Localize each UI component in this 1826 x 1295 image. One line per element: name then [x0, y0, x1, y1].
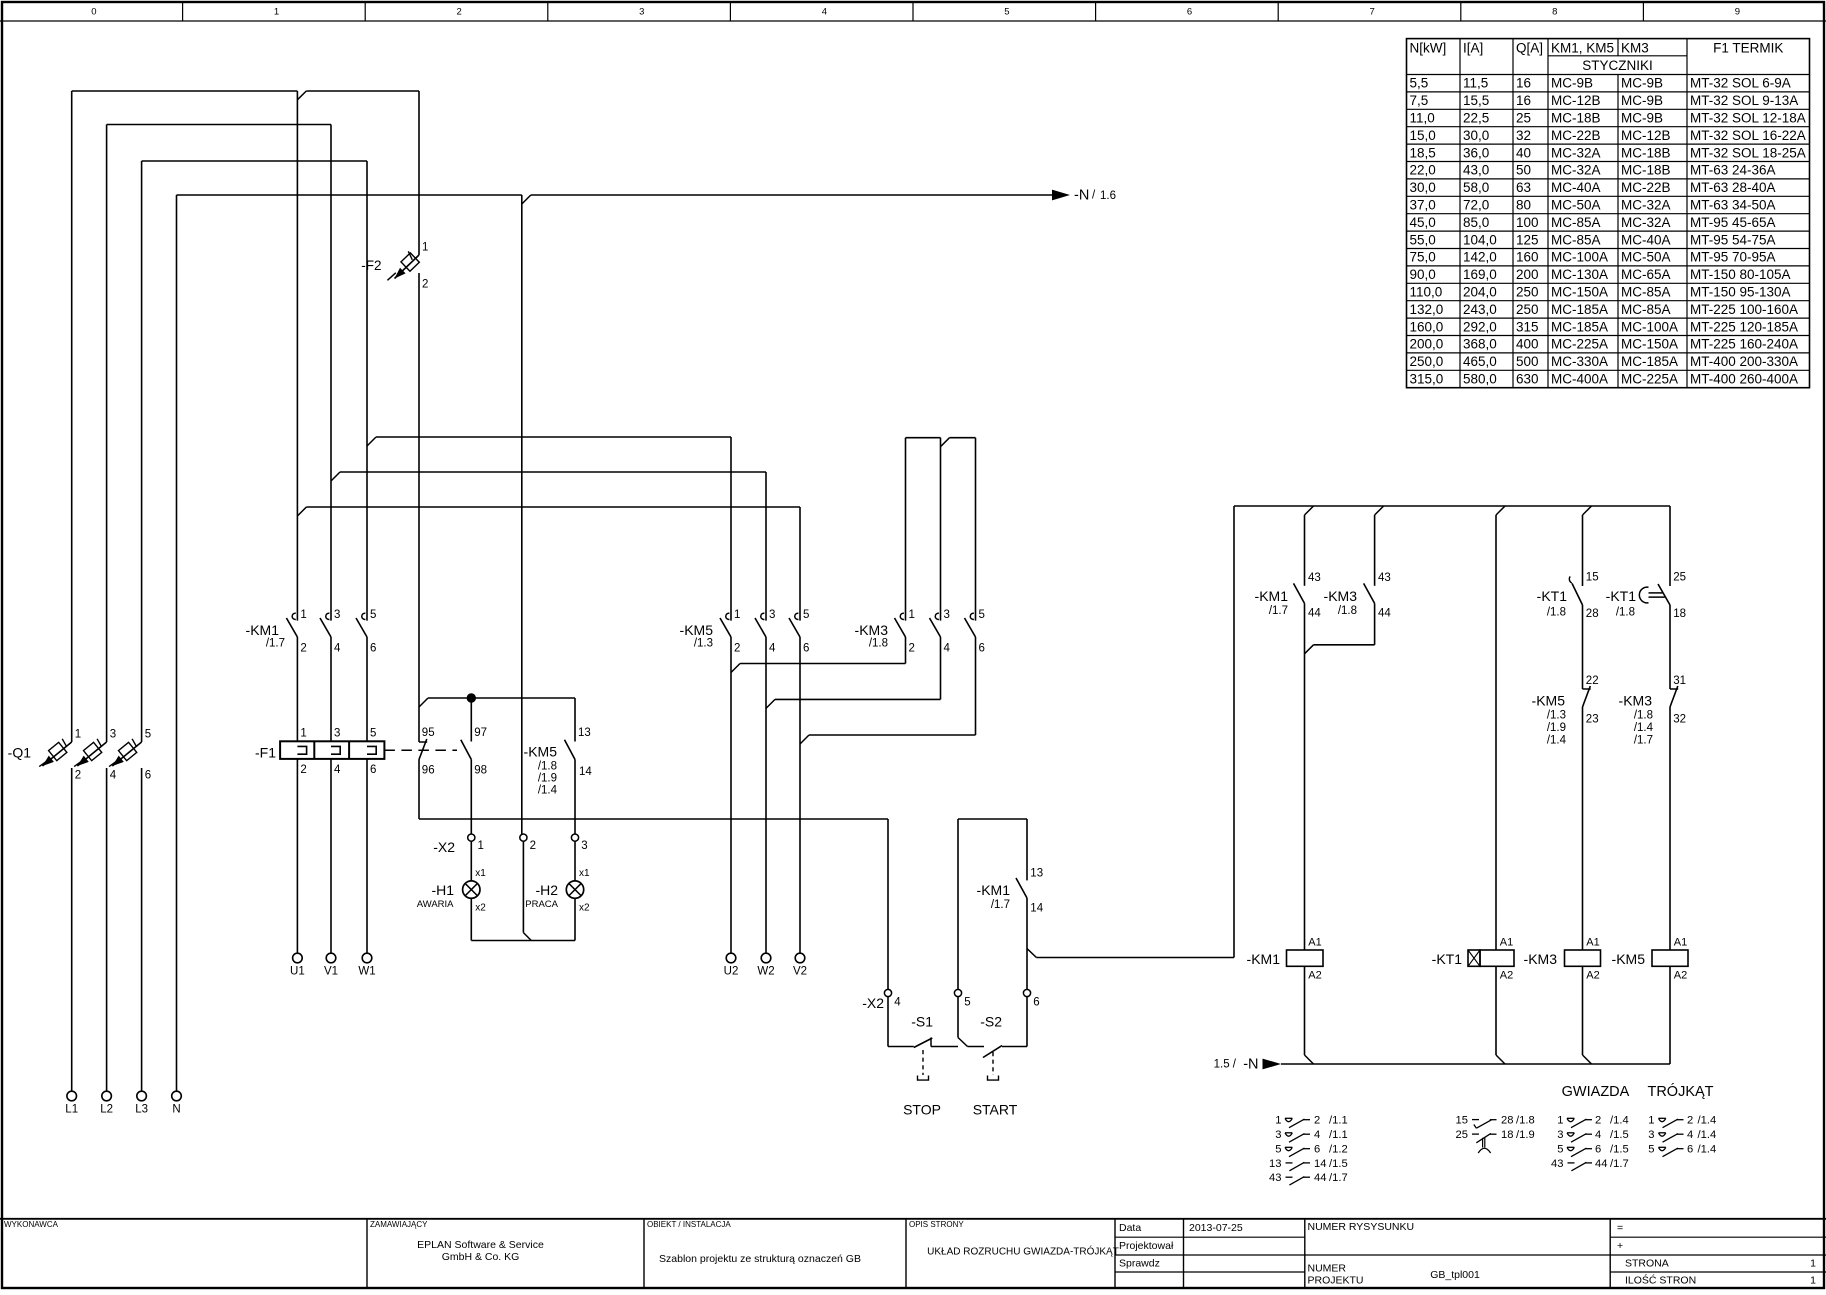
svg-text:/1.8: /1.8	[1616, 607, 1635, 619]
wire 32 down to coil KM5	[1669, 707, 1671, 950]
svg-text:2: 2	[422, 278, 428, 290]
svg-text:1: 1	[1557, 1115, 1563, 1127]
svg-text:MT-225 160-240A: MT-225 160-240A	[1690, 337, 1798, 352]
svg-text:A2: A2	[1674, 970, 1687, 982]
svg-text:7,5: 7,5	[1410, 93, 1429, 108]
svg-text:43: 43	[1308, 572, 1321, 584]
svg-text:PROJEKTU: PROJEKTU	[1308, 1275, 1364, 1287]
svg-text:90,0: 90,0	[1410, 267, 1436, 282]
svg-text:3: 3	[334, 609, 340, 621]
svg-text:80: 80	[1516, 198, 1531, 213]
svg-text:MC-50A: MC-50A	[1551, 198, 1601, 213]
svg-text:GmbH & Co. KG: GmbH & Co. KG	[442, 1251, 520, 1263]
svg-text:/1.8: /1.8	[1516, 1115, 1535, 1127]
svg-text:MT-225 120-185A: MT-225 120-185A	[1690, 319, 1798, 334]
terminal W2	[761, 953, 771, 963]
svg-text:MC-85A: MC-85A	[1621, 285, 1671, 300]
svg-text:1: 1	[75, 728, 81, 740]
svg-text:5: 5	[979, 609, 985, 621]
contactor KM3 contact 1-2	[900, 613, 904, 619]
svg-text:STOP: STOP	[903, 1102, 941, 1118]
ruler tick 7	[1277, 2, 1279, 21]
contactor KM3 contact 5-6	[970, 613, 974, 619]
wire branch from L1 run to fuse F2 (node at column1 top)	[297, 91, 306, 100]
svg-text:MC-12B: MC-12B	[1551, 93, 1601, 108]
svg-text:=: =	[1617, 1222, 1623, 1234]
contactor KM1 contact 1-2	[292, 613, 296, 619]
svg-text:MT-95 54-75A: MT-95 54-75A	[1690, 232, 1776, 247]
svg-text:5: 5	[964, 997, 970, 1009]
coil KM5	[1652, 950, 1688, 966]
svg-text:6: 6	[979, 643, 985, 655]
svg-text:/1.1: /1.1	[1329, 1129, 1348, 1141]
svg-text:-S2: -S2	[980, 1014, 1002, 1030]
svg-text:6: 6	[1595, 1144, 1601, 1156]
svg-text:2: 2	[1314, 1115, 1320, 1127]
wire 18 to 31	[1669, 605, 1671, 689]
svg-text:/1.7: /1.7	[266, 638, 285, 650]
svg-text:/1.8: /1.8	[1547, 607, 1566, 619]
rung riser KT1 coil	[1496, 506, 1505, 515]
svg-text:MC-32A: MC-32A	[1621, 198, 1671, 213]
coil KM1	[1287, 950, 1324, 966]
svg-text:11,0: 11,0	[1410, 111, 1435, 126]
svg-text:85,0: 85,0	[1463, 215, 1489, 230]
svg-text:95: 95	[422, 727, 435, 739]
wire KM5:2 down to terminal U2 with branch to KM3:2	[730, 637, 732, 953]
lamp H2 PRACA	[566, 881, 583, 898]
wire X2:3 to lamp H2	[574, 841, 576, 881]
F1 trip contact 95-96 (NC)	[419, 741, 427, 743]
wire L1 riser and top run to KM1 pin1	[71, 768, 73, 1091]
terminal L3	[137, 1091, 147, 1101]
svg-text:x2: x2	[475, 903, 486, 914]
terminal X2:5	[954, 989, 961, 996]
svg-text:142,0: 142,0	[1463, 250, 1497, 265]
coil KM3	[1565, 950, 1601, 966]
svg-text:63: 63	[1516, 180, 1531, 195]
svg-text:250: 250	[1516, 302, 1539, 317]
wire 98 down to X2:1	[470, 760, 472, 834]
svg-text:44: 44	[1314, 1172, 1326, 1184]
thermal element pole 3	[367, 746, 376, 754]
terminal U1	[293, 953, 303, 963]
svg-text:44: 44	[1595, 1158, 1607, 1170]
svg-text:15: 15	[1586, 572, 1599, 584]
ruler tick 2	[364, 2, 366, 21]
svg-text:-S1: -S1	[911, 1014, 933, 1030]
wire lamp H1 to bottom link	[470, 898, 472, 940]
svg-text:-KM3: -KM3	[1324, 588, 1358, 604]
timer KT1 contact 15-28 (NO delayed)	[1572, 583, 1583, 605]
svg-text:13: 13	[1269, 1158, 1281, 1170]
svg-text:15,0: 15,0	[1410, 128, 1436, 143]
control supply bus	[1234, 505, 1670, 507]
svg-text:1: 1	[1810, 1258, 1816, 1270]
svg-text:13: 13	[1030, 868, 1043, 880]
svg-text:3: 3	[581, 840, 587, 852]
svg-text:6: 6	[1687, 1144, 1693, 1156]
svg-text:2: 2	[457, 7, 462, 18]
svg-text:-X2: -X2	[433, 839, 455, 855]
wire F2 to overload trip node	[418, 273, 420, 742]
svg-text:MC-100A: MC-100A	[1551, 250, 1608, 265]
thermal element pole 2	[331, 746, 340, 754]
svg-text:2: 2	[734, 643, 740, 655]
svg-text:/1.7: /1.7	[1610, 1158, 1629, 1170]
wire KM5:6 down to terminal V2 with branch to KM3:6	[799, 637, 801, 953]
svg-text:15: 15	[1456, 1115, 1468, 1127]
wire L3 riser and top run to KM1 pin5	[141, 768, 143, 1091]
svg-text:MC-100A: MC-100A	[1621, 319, 1678, 334]
svg-text:1: 1	[478, 840, 484, 852]
control bridge above buttons	[957, 819, 959, 989]
svg-text:A2: A2	[1308, 970, 1321, 982]
svg-text:MC-12B: MC-12B	[1621, 128, 1671, 143]
svg-text:MT-32 SOL 12-18A: MT-32 SOL 12-18A	[1690, 111, 1806, 126]
svg-text:A1: A1	[1586, 936, 1599, 948]
svg-text:5: 5	[145, 728, 151, 740]
svg-text:3: 3	[1275, 1129, 1281, 1141]
fuse switch F2 symbol	[395, 255, 420, 279]
svg-text:204,0: 204,0	[1463, 285, 1497, 300]
svg-text:L1: L1	[65, 1104, 78, 1116]
wire X2:1 to lamp H1	[470, 841, 472, 881]
svg-text:/1.8: /1.8	[1338, 605, 1357, 617]
svg-text:MT-32 SOL 16-22A: MT-32 SOL 16-22A	[1690, 128, 1806, 143]
svg-text:43: 43	[1551, 1158, 1563, 1170]
svg-text:START: START	[973, 1102, 1018, 1118]
rung riser KM3 43-44	[1375, 506, 1384, 515]
svg-text:V1: V1	[324, 966, 338, 978]
svg-text:MC-40A: MC-40A	[1551, 180, 1601, 195]
svg-text:/1.9: /1.9	[538, 773, 557, 785]
svg-text:-N: -N	[1243, 1057, 1258, 1073]
svg-text:16: 16	[1516, 76, 1531, 91]
svg-text:A2: A2	[1586, 970, 1599, 982]
svg-text:1: 1	[300, 609, 306, 621]
svg-text:13: 13	[578, 727, 591, 739]
svg-text:6: 6	[145, 770, 151, 782]
svg-text:500: 500	[1516, 354, 1539, 369]
svg-text:/1.4: /1.4	[1547, 735, 1567, 747]
wires KM1 to F1	[296, 637, 298, 741]
svg-text:43: 43	[1269, 1172, 1281, 1184]
wire L2 riser and top run to KM1 pin3	[106, 768, 108, 1091]
svg-text:3: 3	[769, 609, 775, 621]
svg-text:TRÓJKĄT: TRÓJKĄT	[1647, 1083, 1713, 1100]
wire KM1 aux down to X2:6 and branch to coil bus	[1026, 898, 1028, 989]
svg-text:AWARIA: AWARIA	[417, 899, 454, 910]
svg-text:55,0: 55,0	[1410, 232, 1436, 247]
svg-text:2: 2	[300, 764, 306, 776]
svg-text:2: 2	[909, 643, 915, 655]
svg-text:/1.7: /1.7	[1634, 735, 1653, 747]
svg-text:x1: x1	[579, 868, 590, 879]
svg-text:/1.3: /1.3	[1547, 710, 1566, 722]
wire KM3 44 joins KM1 44	[1374, 603, 1376, 644]
svg-text:MT-400 200-330A: MT-400 200-330A	[1690, 354, 1798, 369]
circuit breaker Q1 pole 2	[77, 742, 106, 766]
svg-text:368,0: 368,0	[1463, 337, 1497, 352]
svg-text:Projektował: Projektował	[1119, 1240, 1174, 1252]
svg-text:3: 3	[639, 7, 644, 18]
svg-text:-X2: -X2	[862, 995, 884, 1011]
svg-text:MC-130A: MC-130A	[1551, 267, 1608, 282]
svg-text:MT-95 70-95A: MT-95 70-95A	[1690, 250, 1776, 265]
svg-text:110,0: 110,0	[1410, 285, 1443, 300]
svg-text:MC-85A: MC-85A	[1551, 232, 1601, 247]
svg-text:3: 3	[110, 728, 116, 740]
svg-text:/1.1: /1.1	[1329, 1115, 1348, 1127]
svg-text:1: 1	[300, 728, 306, 740]
svg-text:EPLAN Software & Service: EPLAN Software & Service	[417, 1239, 544, 1251]
contactor KM1 contact 5-6	[362, 613, 366, 619]
svg-text:-KM1: -KM1	[1247, 951, 1281, 967]
svg-text:MC-18B: MC-18B	[1621, 145, 1671, 160]
svg-text:6: 6	[1187, 7, 1192, 18]
svg-text:STRONA: STRONA	[1625, 1258, 1669, 1270]
star point bridge wires above KM3	[906, 437, 941, 439]
svg-text:MT-32 SOL 9-13A: MT-32 SOL 9-13A	[1690, 93, 1798, 108]
svg-text:MT-400 260-400A: MT-400 260-400A	[1690, 372, 1798, 387]
svg-text:MC-85A: MC-85A	[1621, 302, 1671, 317]
svg-text:75,0: 75,0	[1410, 250, 1436, 265]
svg-text:580,0: 580,0	[1463, 372, 1497, 387]
svg-text:6: 6	[1033, 997, 1039, 1009]
svg-text:/1.5: /1.5	[1610, 1129, 1629, 1141]
svg-text:/1.5: /1.5	[1329, 1158, 1348, 1170]
svg-text:-KT1: -KT1	[1432, 951, 1463, 967]
circuit breaker Q1 pole 3	[112, 742, 141, 766]
svg-text:+: +	[1617, 1240, 1623, 1252]
svg-text:32: 32	[1516, 128, 1531, 143]
svg-text:4: 4	[334, 764, 341, 776]
svg-text:4: 4	[769, 643, 776, 655]
svg-text:3: 3	[1557, 1129, 1563, 1141]
wire X2:2 (N) down to lamp link	[522, 841, 524, 932]
svg-text:STYCZNIKI: STYCZNIKI	[1582, 58, 1653, 73]
terminal V2	[795, 953, 805, 963]
svg-text:4: 4	[822, 7, 827, 18]
svg-text:400: 400	[1516, 337, 1539, 352]
svg-text:7: 7	[1370, 7, 1375, 18]
svg-text:x1: x1	[475, 868, 486, 879]
lamp bottom link wire	[471, 940, 575, 942]
rung riser KT1 15-28 / KM5 22-23	[1583, 506, 1592, 515]
contactor KM5 contact 5-6	[795, 613, 799, 619]
terminal W1	[362, 953, 372, 963]
terminal N	[172, 1091, 182, 1101]
svg-text:4: 4	[110, 770, 117, 782]
svg-text:V2: V2	[793, 966, 807, 978]
svg-text:44: 44	[1378, 608, 1391, 620]
svg-text:MC-18B: MC-18B	[1551, 111, 1601, 126]
svg-text:/: /	[1092, 190, 1096, 202]
svg-text:6: 6	[1314, 1144, 1320, 1156]
svg-text:-KT1: -KT1	[1606, 588, 1637, 604]
svg-text:MT-225 100-160A: MT-225 100-160A	[1690, 302, 1798, 317]
coil KT1 (timer)	[1480, 950, 1514, 966]
svg-text:630: 630	[1516, 372, 1539, 387]
terminal U2	[726, 953, 736, 963]
svg-text:MC-65A: MC-65A	[1621, 267, 1671, 282]
contactor KM3 aux contact 31-32 (NC)	[1670, 688, 1678, 690]
svg-text:/1.4: /1.4	[1610, 1115, 1629, 1127]
svg-text:1: 1	[274, 7, 279, 18]
rung riser KM1 43-44	[1305, 506, 1314, 515]
svg-text:2: 2	[75, 770, 81, 782]
column ruler line	[0, 20, 1826, 22]
svg-text:-KM3: -KM3	[1619, 693, 1653, 709]
svg-text:4: 4	[1314, 1129, 1320, 1141]
svg-text:PRACA: PRACA	[525, 899, 558, 910]
svg-text:-KM5: -KM5	[524, 744, 558, 760]
svg-text:KM1, KM5: KM1, KM5	[1551, 41, 1614, 56]
svg-text:I[A]: I[A]	[1463, 41, 1483, 56]
svg-text:96: 96	[422, 764, 435, 776]
rung riser KT1 25-18 / KM3 31-32	[1669, 506, 1671, 586]
terminal L1	[67, 1091, 77, 1101]
svg-text:MC-9B: MC-9B	[1621, 111, 1663, 126]
svg-text:-F1: -F1	[255, 744, 276, 760]
svg-text:MC-32A: MC-32A	[1551, 163, 1601, 178]
ruler tick 3	[547, 2, 549, 21]
svg-text:2: 2	[1595, 1115, 1601, 1127]
svg-text:30,0: 30,0	[1463, 128, 1489, 143]
svg-text:1: 1	[1275, 1115, 1281, 1127]
svg-text:18: 18	[1501, 1129, 1513, 1141]
svg-text:-KM1: -KM1	[977, 882, 1011, 898]
terminal X2:2	[520, 834, 527, 841]
svg-text:5: 5	[1648, 1144, 1654, 1156]
contactor KM5 aux contact 22-23 (NC)	[1583, 688, 1591, 690]
svg-text:MC-225A: MC-225A	[1621, 372, 1678, 387]
svg-text:5: 5	[803, 609, 809, 621]
svg-text:22,0: 22,0	[1410, 163, 1436, 178]
svg-text:MC-85A: MC-85A	[1551, 215, 1601, 230]
svg-text:-KM3: -KM3	[855, 622, 889, 638]
svg-text:30,0: 30,0	[1410, 180, 1436, 195]
svg-text:-KM1: -KM1	[1255, 588, 1289, 604]
ruler tick 5	[912, 2, 914, 21]
svg-text:100: 100	[1516, 215, 1539, 230]
svg-text:/1.4: /1.4	[1698, 1144, 1717, 1156]
svg-text:U1: U1	[290, 966, 305, 978]
svg-text:OBIEKT / INSTALACJA: OBIEKT / INSTALACJA	[647, 1220, 731, 1229]
svg-text:A2: A2	[1500, 970, 1513, 982]
svg-text:31: 31	[1673, 675, 1686, 687]
wire 28 to 22	[1582, 605, 1584, 689]
svg-text:3: 3	[944, 609, 950, 621]
svg-text:50: 50	[1516, 163, 1531, 178]
feeder wire from L3 column to KM5 pin1	[367, 437, 376, 446]
terminal X2:4	[884, 989, 891, 996]
svg-text:x2: x2	[579, 903, 590, 914]
terminal V1	[326, 953, 336, 963]
svg-text:2: 2	[1687, 1115, 1693, 1127]
contactor KM3 contact 3-4	[935, 613, 939, 619]
contactor KM5 aux contact 13-14	[565, 740, 576, 760]
svg-text:/1.5: /1.5	[1610, 1144, 1629, 1156]
svg-text:MC-400A: MC-400A	[1551, 372, 1608, 387]
svg-text:MC-185A: MC-185A	[1551, 319, 1608, 334]
svg-text:28: 28	[1586, 608, 1599, 620]
svg-text:MC-22B: MC-22B	[1621, 180, 1671, 195]
F1 trip contact 97-98 (NO)	[461, 740, 472, 760]
svg-text:1: 1	[422, 242, 428, 254]
wire across to control riser	[1036, 957, 1234, 959]
svg-text:1: 1	[909, 609, 915, 621]
terminal X2:3	[571, 834, 578, 841]
svg-text:0: 0	[91, 7, 96, 18]
svg-text:1: 1	[1810, 1275, 1816, 1287]
contactor KM1 aux contact 43-44	[1294, 583, 1305, 603]
svg-text:5: 5	[1275, 1144, 1281, 1156]
svg-text:36,0: 36,0	[1463, 145, 1489, 160]
thermal overload relay F1 box	[280, 741, 384, 759]
wire N continuation to sheet reference -N/1.6	[522, 195, 531, 204]
svg-text:25: 25	[1456, 1129, 1468, 1141]
ruler tick 4	[729, 2, 731, 21]
svg-text:98: 98	[474, 764, 487, 776]
svg-text:44: 44	[1308, 608, 1321, 620]
contactor KM5 contact 3-4	[761, 613, 765, 619]
svg-text:MT-63 24-36A: MT-63 24-36A	[1690, 163, 1776, 178]
svg-text:Szablon projektu ze strukturą: Szablon projektu ze strukturą oznaczeń G…	[659, 1253, 861, 1265]
svg-text:9: 9	[1735, 7, 1740, 18]
svg-text:MT-63 28-40A: MT-63 28-40A	[1690, 180, 1776, 195]
svg-text:58,0: 58,0	[1463, 180, 1489, 195]
svg-text:18,5: 18,5	[1410, 145, 1436, 160]
contactor KM5 contact 1-2	[726, 613, 730, 619]
svg-text:Data: Data	[1119, 1222, 1141, 1234]
svg-text:37,0: 37,0	[1410, 198, 1436, 213]
svg-text:243,0: 243,0	[1463, 302, 1497, 317]
svg-text:/1.8: /1.8	[538, 761, 557, 773]
svg-text:23: 23	[1586, 714, 1599, 726]
svg-text:16: 16	[1516, 93, 1531, 108]
svg-text:4: 4	[944, 643, 951, 655]
svg-text:/1.4: /1.4	[1698, 1129, 1717, 1141]
svg-text:-KM5: -KM5	[1532, 693, 1566, 709]
sheet reference arrow -N / 1.6	[1052, 190, 1070, 201]
svg-text:A1: A1	[1674, 936, 1687, 948]
svg-text:MC-185A: MC-185A	[1621, 354, 1678, 369]
svg-text:OPIS STRONY: OPIS STRONY	[909, 1220, 964, 1229]
svg-text:14: 14	[1314, 1158, 1326, 1170]
svg-text:-F2: -F2	[361, 258, 381, 273]
dashed mechanical link F1 to trip contacts	[384, 749, 457, 751]
svg-text:4: 4	[334, 643, 341, 655]
feeder wire from L2 column to KM5 pin3	[331, 472, 340, 481]
svg-text:160,0: 160,0	[1410, 319, 1444, 334]
svg-text:43,0: 43,0	[1463, 163, 1489, 178]
ruler tick 1	[182, 2, 184, 21]
svg-text:/1.7: /1.7	[991, 899, 1010, 911]
wires F1 to motor terminals U1 V1 W1	[296, 759, 298, 953]
svg-text:GWIAZDA: GWIAZDA	[1562, 1084, 1630, 1100]
svg-text:MC-150A: MC-150A	[1551, 285, 1608, 300]
svg-text:5: 5	[1557, 1144, 1563, 1156]
svg-text:MC-330A: MC-330A	[1551, 354, 1608, 369]
svg-text:MC-18B: MC-18B	[1621, 163, 1671, 178]
wire lamp H2 to bottom link	[574, 898, 576, 940]
svg-text:125: 125	[1516, 232, 1539, 247]
svg-text:-Q1: -Q1	[8, 744, 32, 760]
circuit breaker Q1 pole 1	[42, 742, 71, 766]
svg-text:465,0: 465,0	[1463, 354, 1497, 369]
